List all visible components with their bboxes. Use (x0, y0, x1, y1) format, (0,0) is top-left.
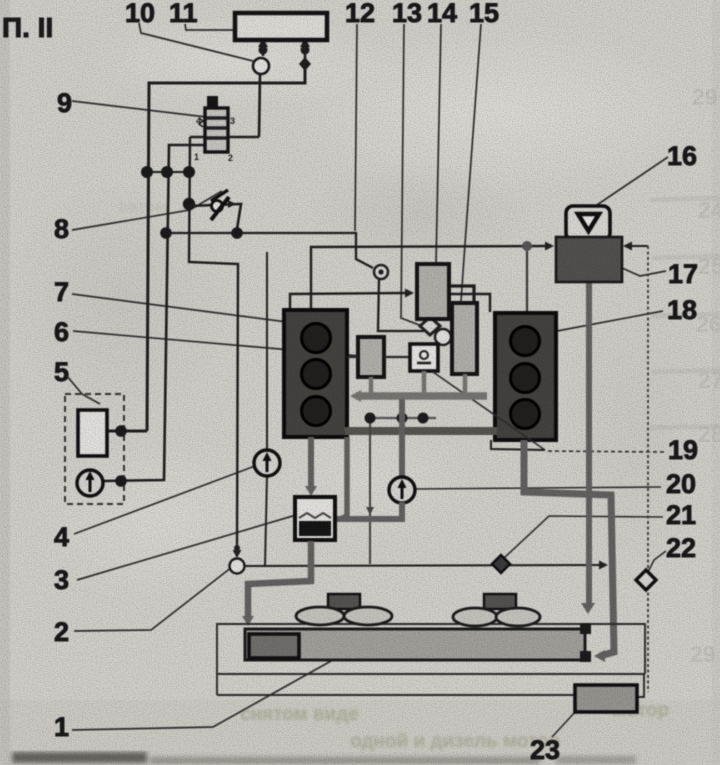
fan blades right (453, 608, 540, 626)
fan motor right (484, 594, 516, 609)
jet line with nozzle dots (365, 413, 437, 424)
ghost green text bottom (bleed-through) (118, 197, 669, 752)
valve 9 port numbers (194, 116, 235, 163)
leader line 1 (72, 661, 331, 730)
wire: x147 into reservoir rect (106, 430, 147, 433)
arrow into heater 17 left (545, 242, 554, 251)
filter 15 (452, 303, 477, 374)
solenoid valve 9 (199, 96, 228, 152)
dashed enclosure 5 (65, 394, 124, 504)
check valve 8 (211, 190, 229, 220)
diamond junction right port (299, 57, 311, 71)
valve circle 10 (253, 58, 269, 74)
wire: engine7 to rect6 (347, 356, 358, 358)
leader line 21 (504, 516, 663, 558)
leader line 7 (72, 294, 287, 322)
expansion bottle 23 (575, 685, 637, 712)
leader line 18 (557, 311, 663, 331)
pipe: main gallery bar (350, 390, 487, 402)
junction square top right of radiator (580, 623, 591, 634)
heat exchanger 6 (358, 337, 384, 377)
heater unit 17 (556, 237, 622, 282)
oil cooler 3 (295, 497, 335, 540)
thermostat diamond 13 (420, 317, 440, 335)
leader line 16 (588, 157, 668, 211)
wire: cooler13 to filter15 elbow (449, 286, 474, 302)
pump 4 (254, 450, 280, 476)
wire: rect6 to sensor box (384, 356, 410, 358)
pipe: gallery down to pump 20 (399, 399, 405, 478)
oil cooler 14 (417, 264, 449, 319)
wire: horizontal y137 to valve9 (190, 136, 259, 139)
ghost bleed-through numbers on right edge (690, 84, 720, 667)
wire: right port down to y83 (147, 68, 305, 431)
leader line 19 (545, 451, 664, 452)
engine block 7 (284, 310, 347, 437)
arrow into cooler 13 left (405, 289, 414, 298)
wire: y294 into cooler 13 (290, 293, 407, 310)
pipe: cooler 3 to radiator (242, 541, 311, 626)
wire: horizontal y233 (162, 233, 373, 268)
pipe: engine7 down into cooler 3 with arrow (305, 437, 317, 496)
wire: circle10 down (259, 74, 260, 137)
gray junction dot on y246 wire (522, 241, 532, 251)
wire: dotted return line x648 (647, 246, 649, 692)
leader line 8 (72, 191, 222, 230)
pipe: heater 17 down to radiator (581, 282, 595, 614)
pipe: engine18 to radiator right (524, 440, 614, 662)
wire: x267 line through pump 4 (265, 252, 267, 565)
radiator core 1 (245, 629, 585, 660)
arrow at right end of y565 wire (599, 561, 608, 570)
leader line 20 (413, 487, 661, 489)
wire: jet line down to fan switch wire (366, 421, 374, 564)
pump in 5 (77, 470, 103, 496)
wire: leader19 tail from sensor box (433, 372, 545, 450)
thermo switch circle 2 (230, 559, 245, 574)
title П. II (2, 12, 53, 43)
pipe: pump 20 to cooler 3 (337, 502, 402, 519)
restrictor diamond 22 (636, 570, 656, 590)
lower gallery band between blocks (345, 427, 497, 435)
leader line 6 (73, 331, 360, 356)
leader line 11 (185, 24, 234, 30)
wire: heater 17 right with arrow (623, 242, 648, 251)
junction dot at check valve branch (183, 198, 195, 210)
junction dot at box5 top wire (115, 425, 127, 437)
ghost ruled lines right edge (650, 198, 720, 428)
sensor box 19 (410, 344, 438, 371)
leader line 10 (139, 23, 253, 61)
expansion tank 11 (235, 13, 327, 40)
junction dot at box5 pump wire (115, 475, 127, 487)
leader line 3 (77, 515, 296, 580)
leader line 5 (67, 376, 100, 404)
junction square right of radiator (580, 651, 591, 662)
leader line 2 (74, 567, 232, 631)
wire: check valve line (189, 200, 241, 229)
radiator shroud frame (217, 624, 645, 697)
leader line 9 (72, 101, 206, 117)
junction dot under tank left port (259, 46, 268, 55)
pipe: engine7 bottom right stub (340, 437, 347, 519)
fan blades left (296, 607, 392, 625)
engine block 18 (495, 313, 556, 440)
wire: cooler13 right to engine18 (449, 294, 490, 312)
leader line 23 (552, 711, 576, 737)
dark smudges bottom edge (12, 752, 636, 764)
wire: engine18 underside elbow (491, 440, 545, 450)
leader line 14 (436, 24, 441, 263)
wire: x189 down (189, 137, 238, 546)
fan motor left (328, 594, 360, 609)
sensor circled-dot 12 (374, 265, 388, 279)
leader line 22 (648, 551, 666, 572)
junction dot y233 right (231, 227, 243, 239)
wire: circle2 to right arrow (245, 565, 602, 566)
wire: engine7 top to heater 17 (311, 246, 546, 311)
junction dot y233 left (160, 227, 172, 239)
junction dot under tank right port (301, 46, 310, 55)
leader line 12 (355, 24, 357, 231)
arrow into coolant circle 2 (233, 545, 242, 558)
restrictor diamond 21 (492, 555, 510, 573)
reservoir rect in 5 (78, 410, 107, 456)
thermostat circle (435, 329, 451, 345)
pipe stubs above gallery (371, 371, 465, 393)
thermo cap 16 (566, 206, 610, 240)
pump 20 (389, 477, 415, 503)
wire: circled-dot down to thermostat (378, 279, 424, 331)
wire: x527 down to engine18 (526, 251, 528, 313)
wire: valve9 port to x164 down to pump (103, 145, 205, 481)
radiator end tank (249, 634, 299, 658)
leader line 17 (622, 268, 666, 276)
leader line 4 (74, 466, 255, 534)
leader line 15 (461, 24, 481, 301)
junction dots row y172 (141, 166, 195, 178)
wire: expansion tank bottom ports (258, 38, 310, 60)
leader line 13 (401, 24, 422, 326)
